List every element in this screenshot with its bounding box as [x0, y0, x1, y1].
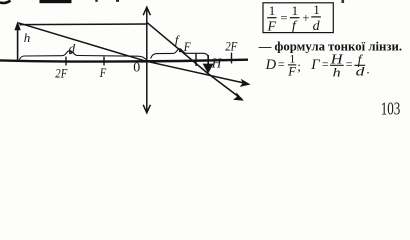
svg-text:1: 1 — [269, 3, 276, 18]
arrowhead of refracted ray — [233, 92, 244, 101]
tick F left — [103, 57, 105, 66]
svg-text:=: = — [280, 11, 287, 25]
svg-text:2F: 2F — [55, 67, 67, 81]
boxed formula 1/F = 1/f + 1/d — [267, 2, 321, 35]
refracted ray (through right focus F to far arrow) — [147, 22, 243, 99]
artifact: speck 1 — [95, 0, 97, 2]
svg-text:F: F — [287, 64, 296, 78]
svg-text:=: = — [346, 57, 353, 71]
artifact: speck 2 — [116, 0, 119, 2]
svg-text:=: = — [278, 57, 285, 71]
svg-text:d: d — [356, 64, 365, 79]
central ray (through optical centre, to far arrow) — [18, 23, 248, 84]
svg-text:1: 1 — [292, 3, 299, 18]
tick 2F right — [231, 53, 233, 64]
arrowhead of central ray — [240, 79, 251, 87]
svg-text:103: 103 — [381, 99, 401, 119]
lens arrowhead bottom — [143, 105, 150, 113]
formula D = 1/F; G = H/h = f/d — [265, 51, 370, 79]
svg-text:;: ; — [297, 59, 301, 74]
svg-text:H: H — [211, 56, 223, 71]
svg-text:D: D — [265, 57, 277, 73]
image arrow H (inverted, below axis) — [207, 55, 209, 65]
svg-text:F: F — [267, 20, 277, 35]
svg-text:d: d — [313, 19, 321, 34]
svg-text:2F: 2F — [225, 40, 238, 54]
incident parallel ray (object tip to lens) — [20, 23, 147, 26]
svg-text:Γ: Γ — [310, 57, 320, 73]
svg-text:0: 0 — [133, 61, 140, 76]
object arrow (height h) — [17, 28, 19, 61]
tick F right — [195, 54, 197, 66]
svg-text:F: F — [183, 40, 191, 54]
artifact: cut-off glyph stroke top-left — [0, 1, 11, 3]
svg-text:1: 1 — [313, 2, 320, 17]
svg-text:h: h — [24, 30, 31, 45]
svg-text:=: = — [322, 57, 329, 71]
tick 2F left — [65, 57, 67, 66]
formula box — [263, 3, 333, 33]
svg-text:h: h — [333, 64, 341, 79]
svg-text:d: d — [69, 41, 76, 56]
optical axis — [0, 60, 248, 62]
svg-text:.: . — [366, 62, 369, 77]
artifact: cut-off bar top — [40, 0, 72, 3]
lens arrowhead top — [143, 7, 150, 15]
brace d (object distance, axis-hugging curly line with centre curl) — [20, 51, 147, 60]
brace f (image distance) with curl under label f — [151, 49, 209, 59]
lens (double-headed vertical arrow) — [146, 9, 148, 112]
svg-text:+: + — [302, 11, 309, 25]
artifact: speck right of formula box — [342, 0, 345, 3]
svg-text:F: F — [99, 66, 107, 80]
